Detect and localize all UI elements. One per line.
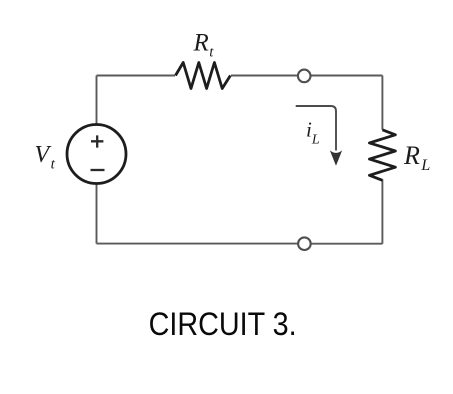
wire top-left horizontal segment (97, 75, 176, 77)
terminal node bottom (open circle) (298, 237, 311, 250)
wire top between resistor and terminal (231, 75, 298, 77)
resistor R_t (horizontal zigzag) (176, 63, 231, 89)
plus sign inside source (91, 135, 103, 147)
wire left vertical lower segment (96, 184, 98, 244)
wire top-right segment (311, 75, 383, 77)
wire right vertical upper segment (381, 76, 383, 130)
voltage source V_t circle (67, 125, 126, 184)
wire bottom-right segment (311, 243, 382, 245)
minus sign inside source (91, 169, 105, 171)
wire left vertical upper segment (96, 76, 98, 125)
arrowhead of i_L (330, 150, 342, 166)
current arrow i_L (296, 106, 336, 151)
terminal node top (open circle) (298, 70, 311, 83)
resistor R_L (vertical zigzag) (369, 130, 395, 181)
wire right vertical lower segment (381, 179, 383, 243)
wire bottom-left segment (97, 243, 298, 245)
svg-text:CIRCUIT 3.: CIRCUIT 3. (149, 306, 297, 342)
